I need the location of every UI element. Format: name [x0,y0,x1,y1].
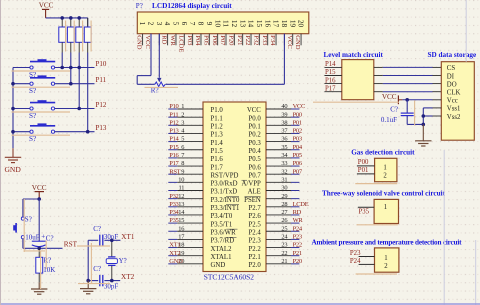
svg-text:P1.0: P1.0 [211,107,224,114]
svg-text:P21: P21 [236,35,243,45]
sheet left border [0,0,2,305]
wire/net P16 into level block [325,77,342,84]
pin 5 of P? [172,22,181,46]
svg-text:P14: P14 [169,136,179,143]
svg-text:XT2: XT2 [121,273,135,281]
svg-text:19: 19 [288,20,297,28]
net label XT1 [121,233,135,241]
svg-text:P1.7: P1.7 [211,164,224,171]
pin label VCC (pin 19) [286,35,293,49]
svg-text:Level match circuit: Level match circuit [324,51,384,59]
wire LCD pin2 to pot left [137,34,155,85]
pin 4 of P? [163,22,172,46]
push button S? row P12 [30,100,55,110]
ground (reset divider) [31,282,47,294]
wire VCC to SD Vcc pin [402,98,441,102]
svg-text:P24: P24 [293,225,303,232]
wire crystal left vertical [87,240,89,280]
push button S? row P11 [30,75,55,85]
svg-text:8: 8 [197,22,206,26]
pin 20 of U? (left, GND) [168,258,203,265]
svg-text:P20: P20 [227,35,234,46]
svg-text:P2.4: P2.4 [249,229,262,236]
svg-text:38: 38 [281,119,287,126]
svg-text:35: 35 [281,144,287,151]
svg-text:P1.4: P1.4 [211,140,224,147]
power VCC (reset circuit) [32,184,47,199]
pin 38 of U? (right, P0.1) [266,119,302,126]
svg-text:20: 20 [297,20,306,28]
svg-text:5: 5 [181,136,184,143]
value 10uF + designator C? [25,233,53,243]
svg-text:P07: P07 [293,168,303,175]
wire resistor R3 to key row [78,53,80,109]
tan echo line (gas) [355,183,397,185]
svg-text:40: 40 [281,103,287,110]
designator R? (pot) [151,86,159,94]
svg-text:LCD12864 display circuit: LCD12864 display circuit [152,1,232,10]
svg-text:4: 4 [163,22,172,26]
overbars (active-low pins) [226,180,261,237]
pin 7 of P? [188,22,197,46]
svg-text:P05: P05 [293,152,302,159]
wire resistor R2 to key row [70,53,72,84]
svg-text:C?: C? [93,265,101,273]
svg-text:9: 9 [181,168,184,175]
junction dots key matrix [11,66,89,134]
svg-text:P10: P10 [169,103,178,110]
svg-text:36: 36 [281,136,287,143]
svg-text:P23: P23 [350,250,361,257]
svg-text:28: 28 [281,201,287,208]
svg-text:P22: P22 [244,35,251,45]
pin 23 of U? (right, P2.2) [266,242,302,249]
resistor R? 10K [36,248,43,282]
svg-text:31: 31 [281,176,287,183]
svg-text:10K: 10K [43,266,55,274]
connector body (ambient sensor) [375,248,399,272]
title Three-way solenoid valve control circuit [322,189,446,197]
svg-text:3: 3 [181,119,184,126]
svg-text:XTAL1: XTAL1 [211,254,232,261]
pin 6 of P? [180,22,189,46]
sheet bottom border [0,303,480,305]
svg-text:P35: P35 [169,217,178,224]
wire/net P15 into level block [325,69,342,76]
wire/net P17 into level block [325,85,342,92]
svg-text:15: 15 [178,217,184,224]
pin 33 of U? (right, P0.6) [266,160,303,167]
pin label P06 (pin 10) [211,35,218,46]
capacitor C? 0.1uF [401,100,414,125]
svg-text:VCC: VCC [32,184,47,192]
pin label P21 (pin 13) [236,35,243,45]
svg-text:P03: P03 [186,35,193,46]
pin 31 of U? (right, A/VPP) [266,176,299,183]
pin numbers 1/2 (gas) [383,164,387,179]
svg-text:P11: P11 [169,111,178,118]
svg-text:WR: WR [293,217,304,224]
capacitor C? 10uF (electrolytic) [32,199,46,248]
svg-text:10uF: 10uF [25,234,40,242]
pin 13 of P? [238,20,247,45]
pin 8 of P? [197,22,206,46]
svg-text:2: 2 [147,22,156,26]
svg-text:S?: S? [25,215,32,223]
svg-text:XTAL2: XTAL2 [211,246,233,253]
svg-text:VCC: VCC [293,103,305,110]
pin 16 of U? (left, P3.6/WR) [168,225,203,232]
svg-text:16: 16 [178,225,184,232]
potentiometer R? zigzag [155,82,165,87]
svg-text:P35: P35 [359,209,370,216]
pin 1 of P? [138,22,147,46]
pin label P20 (pin 12) [227,35,234,46]
pin 21 of U? (right, P2.0) [266,258,302,265]
net label P23 / pin 1 wire [350,250,375,257]
wire VCC node to branches [23,197,41,201]
pin label RD (pin 4) [161,35,168,44]
svg-text:P0.2: P0.2 [249,132,262,139]
svg-text:11: 11 [222,20,231,27]
svg-text:34: 34 [281,152,288,159]
tan line under row P11 [12,86,71,88]
pin label P22 (pin 14) [244,35,251,45]
pin label WR (pin 5) [169,35,176,46]
svg-text:P3.6/WR: P3.6/WR [211,229,237,236]
pin 2 of U? (left, P1.1) [168,111,203,118]
pin 10 of U? (left, P3.0/RxD) [168,176,203,183]
connector body (gas sensor) [375,158,397,181]
pin 15 of U? (left, P3.5/T1) [168,217,203,224]
svg-text:P33: P33 [169,201,178,208]
net label P13 [96,124,107,132]
pin 32 of U? (right, P0.7) [266,168,303,175]
svg-text:P10: P10 [96,60,107,68]
pin label P03 (pin 7) [186,35,193,46]
svg-text:P15: P15 [325,69,336,76]
pin 10 of P? [213,20,222,45]
op IC U? STC12C5A60S2 body [203,102,266,272]
svg-text:RD: RD [293,209,302,216]
ground (crystal) [80,281,96,294]
pin label P05 (pin 9) [202,35,209,46]
resistor R2 (pull-up) [67,18,74,53]
pin label P04 (pin 8) [194,35,201,46]
svg-text:P1.5: P1.5 [211,148,224,155]
svg-text:P02: P02 [293,128,302,135]
pin 17 of U? (left, P3.7/RD) [168,234,203,241]
U? inner pin names [211,107,262,269]
push button S? row P13 [30,123,55,133]
svg-text:XT2: XT2 [169,250,180,257]
tan line under row P13 [12,134,71,136]
svg-text:1: 1 [181,103,184,110]
svg-text:14: 14 [178,209,185,216]
net label P24 / pin 2 wire [350,258,375,265]
pin label P32 (pin 15) [252,35,259,45]
svg-text:DI: DI [447,73,455,80]
pin 22 of U? (right, P2.1) [266,250,302,257]
pin 18 of U? (left, XTAL2) [168,242,203,249]
svg-text:GND: GND [169,258,183,265]
svg-text:P12: P12 [169,119,178,126]
pin 5 of U? (left, P1.4) [168,136,203,143]
svg-text:8: 8 [181,160,184,167]
pin 13 of U? (left, P3.3/INT1) [168,201,203,208]
pin 3 of P? [155,22,164,46]
tan echo lines (reset area) [24,199,46,289]
SD card block body [441,62,474,141]
svg-text:P34: P34 [169,209,179,216]
svg-text:P3.3/INT1: P3.3/INT1 [211,205,240,212]
designator S? row 3 [29,112,36,120]
svg-text:Three-way solenoid valve contr: Three-way solenoid valve control circuit [322,189,446,197]
svg-text:P0.4: P0.4 [249,148,262,155]
wire RST row [23,247,63,251]
svg-text:14: 14 [247,20,256,28]
wire row P10 [13,67,95,69]
svg-text:27: 27 [281,209,288,216]
svg-text:P1.2: P1.2 [211,124,224,131]
svg-text:Gas detection circuit: Gas detection circuit [351,148,415,156]
svg-text:P1.6: P1.6 [211,156,224,163]
pin 3 of U? (left, P1.2) [168,119,203,126]
wire row P13 [13,131,95,133]
svg-text:P2.6: P2.6 [249,213,262,220]
svg-text:C?: C? [46,234,54,242]
power VCC (top-left pull-up rail) [39,2,54,18]
pin 7 of U? (left, P1.6) [168,152,203,159]
net label XT2 [121,273,135,281]
pin 30 of U? (right, ALE) [266,185,299,192]
svg-text:30: 30 [281,185,287,192]
svg-text:Vss2: Vss2 [447,114,461,121]
svg-text:LCDE: LCDE [293,201,309,208]
svg-text:P0.7: P0.7 [249,172,262,179]
svg-text:P2.0: P2.0 [249,262,262,269]
svg-text:P?: P? [136,2,143,10]
net label P01 / pin 2 wire [357,167,375,174]
svg-text:1: 1 [138,22,147,26]
svg-text:P1.3: P1.3 [211,132,224,139]
title Gas detection circuit [351,148,415,156]
tan line under row P12 [12,111,71,113]
svg-text:Y?: Y? [119,257,127,265]
connector P? body [137,12,308,34]
wire level block to SD pin row 3 [374,83,442,85]
svg-text:37: 37 [281,128,288,135]
svg-text:25: 25 [281,225,287,232]
wire level block to SD pin row 4 [374,91,442,93]
pin 11 of P? [222,20,231,45]
svg-text:15: 15 [255,20,264,28]
pin label P07 (pin 11) [219,35,226,46]
pin label GND (pin 20) [294,35,301,50]
push button S? (reset) [13,199,24,248]
pin 19 of P? [288,20,297,45]
designator C? / value 30pF (bottom) [93,265,118,290]
wire row P11 [13,83,95,85]
svg-text:32: 32 [281,168,287,175]
svg-text:Vcc: Vcc [447,98,458,105]
svg-text:24: 24 [281,234,288,241]
wire row P12 [13,108,95,110]
pin 37 of U? (right, P0.2) [266,128,302,135]
tan echo line (valve) [357,224,398,226]
wire/net P14 into level block [325,61,342,68]
svg-text:23: 23 [281,242,287,249]
designator C? / value 0.1uF [381,106,398,124]
title Level match circuit [324,51,384,59]
tan echo lines (crystal area) [77,243,110,284]
svg-text:P11: P11 [96,76,107,84]
designator S? row 1 [29,71,36,79]
svg-text:P12: P12 [96,101,107,109]
resistor R3 (pull-up) [76,18,83,53]
svg-text:SD data storage: SD data storage [428,51,477,59]
push button S? row P10 [30,59,55,69]
title Ambient pressure and temperature detection circuit [312,239,463,247]
svg-text:6: 6 [180,22,189,26]
pin 4 of U? (left, P1.3) [168,128,203,135]
svg-text:P2.1: P2.1 [249,254,261,261]
svg-text:12: 12 [230,20,239,28]
designator R? / value 10K [43,257,55,275]
wire LCD pin3 to pot wiper (arrow) [157,34,161,83]
svg-text:GND: GND [294,35,301,50]
svg-text:RD: RD [161,35,168,44]
svg-text:29: 29 [281,193,287,200]
pin 15 of P? [255,20,264,45]
designator S? row 4 [29,135,36,143]
net label RST [64,241,78,249]
net label P00 / pin 1 wire [357,159,375,166]
svg-text:VCC: VCC [144,35,151,49]
pin 40 of U? (right, VCC) [266,103,305,110]
pin 25 of U? (right, P2.4) [266,225,303,232]
svg-text:P3.2/INT0: P3.2/INT0 [211,197,240,204]
resistor R1 (pull-up) [59,18,66,53]
svg-text:P0.5: P0.5 [249,156,262,163]
svg-text:1: 1 [384,204,387,211]
svg-text:P05: P05 [202,35,209,46]
svg-text:7: 7 [188,22,197,26]
svg-text:10: 10 [178,176,184,183]
svg-text:5: 5 [172,22,181,26]
pin 1 of U? (left, P1.0) [168,103,203,110]
ground (key common) [5,148,21,162]
svg-text:P0.0: P0.0 [249,115,262,122]
pin 35 of U? (right, P0.4) [266,144,303,151]
svg-text:2: 2 [384,263,388,270]
wire Vss1/Vss2 to ground [407,108,441,126]
net label P12 [96,101,107,109]
svg-text:P3.5/T1: P3.5/T1 [211,221,233,228]
wire resistor R1 to key row [61,53,63,68]
pin 34 of U? (right, P0.5) [266,152,302,159]
pin 26 of U? (right, P2.5) [266,217,303,224]
svg-text:VCC: VCC [247,107,261,114]
svg-text:2: 2 [383,172,387,179]
svg-text:P0.6: P0.6 [249,164,262,171]
svg-text:1: 1 [383,164,386,171]
connector body (valve) [374,199,398,223]
svg-text:STC12C5A60S2: STC12C5A60S2 [204,272,254,281]
pin 17 of P? [272,20,281,45]
svg-text:P2.3: P2.3 [249,238,262,245]
net label P35 / pin 1 wire [358,207,374,215]
svg-text:CLK: CLK [447,90,461,97]
svg-text:A/VPP: A/VPP [242,181,261,188]
resistor R4 (pull-up) [84,18,91,53]
title LCD12864 display circuit [152,1,232,10]
svg-text:ALE: ALE [248,189,261,196]
svg-text:P22: P22 [293,242,302,249]
designator Y? [119,257,127,265]
svg-text:P24: P24 [350,258,361,265]
pin 11 of U? (left, P3.1/TxD) [168,185,203,192]
svg-text:XT1: XT1 [169,242,180,249]
junction dots on VCC rail [60,16,81,20]
wire level block to SD pin row 1 [374,66,442,68]
designator S? (reset) [25,215,32,223]
svg-text:P2.5: P2.5 [249,221,262,228]
ground (SD bypass) [415,124,431,146]
svg-text:P3.4/T0: P3.4/T0 [211,213,233,220]
svg-text:6: 6 [181,144,184,151]
svg-text:DO: DO [447,81,457,88]
svg-text:P04: P04 [293,144,303,151]
svg-text:P3.0/RxD: P3.0/RxD [211,181,238,188]
svg-text:PSEN: PSEN [244,197,261,204]
svg-text:P01: P01 [293,119,302,126]
svg-text:P06: P06 [293,160,303,167]
svg-text:13: 13 [178,201,184,208]
designator P? (LCD connector) [136,2,143,10]
pin label LCDE (pin 6) [177,35,184,52]
pin 16 of P? [263,20,272,45]
svg-text:16: 16 [263,20,272,28]
net label P11 [96,76,107,84]
pin 39 of U? (right, P0.0) [266,111,302,118]
pin 14 of P? [247,20,256,45]
svg-text:LCDE: LCDE [177,35,184,52]
svg-text:P17: P17 [169,160,179,167]
svg-text:P3.1/TxD: P3.1/TxD [211,189,238,196]
svg-text:P33: P33 [261,35,268,46]
svg-text:XT1: XT1 [121,233,135,241]
svg-text:P21: P21 [293,250,302,257]
pin 24 of U? (right, P2.3) [266,234,302,241]
svg-text:C?: C? [390,106,398,114]
pin 36 of U? (right, P0.3) [266,136,302,143]
svg-text:12: 12 [178,193,184,200]
svg-text:R?: R? [43,257,51,265]
svg-text:13: 13 [238,20,247,28]
svg-text:WR: WR [169,35,176,46]
svg-text:P15: P15 [169,144,178,151]
svg-text:39: 39 [281,111,287,118]
pin number 1 (valve) [384,204,387,211]
U? part number STC12C5A60S2 [204,272,254,281]
svg-text:P00: P00 [358,159,369,166]
wire left common vertical (keys to GND) [12,68,14,149]
svg-text:VCC: VCC [382,93,397,101]
svg-text:P04: P04 [194,35,201,46]
pin 6 of U? (left, P1.5) [168,144,203,151]
svg-text:9: 9 [205,22,214,26]
